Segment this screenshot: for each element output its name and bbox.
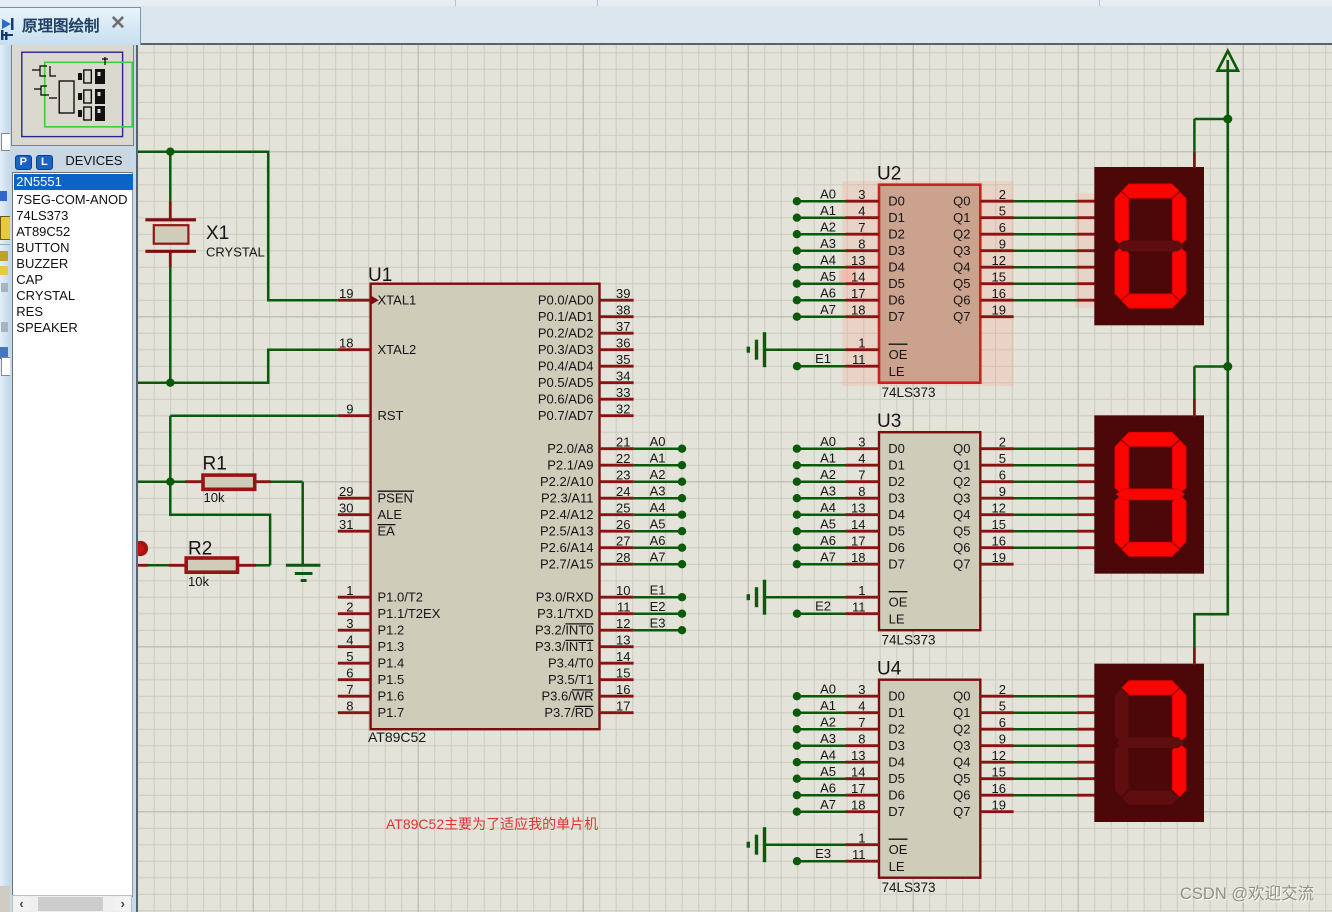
svg-text:P1.7: P1.7 — [378, 705, 405, 720]
svg-text:A1: A1 — [820, 451, 836, 466]
svg-text:P1.2: P1.2 — [378, 622, 405, 637]
svg-text:39: 39 — [616, 286, 630, 301]
svg-text:D6: D6 — [888, 787, 905, 802]
svg-text:16: 16 — [616, 682, 630, 697]
svg-text:10: 10 — [616, 583, 630, 598]
svg-text:A5: A5 — [820, 269, 836, 284]
svg-text:A3: A3 — [820, 731, 836, 746]
svg-text:19: 19 — [992, 303, 1006, 318]
svg-text:9: 9 — [999, 237, 1006, 252]
svg-text:P2.3/A11: P2.3/A11 — [541, 490, 594, 505]
svg-text:32: 32 — [616, 402, 630, 417]
svg-text:A0: A0 — [820, 187, 836, 202]
svg-text:5: 5 — [999, 451, 1006, 466]
svg-text:XTAL1: XTAL1 — [378, 292, 417, 307]
svg-text:P0.4/AD4: P0.4/AD4 — [538, 358, 594, 373]
svg-text:D0: D0 — [888, 688, 905, 703]
svg-text:3: 3 — [858, 682, 865, 697]
svg-text:13: 13 — [851, 253, 865, 268]
svg-text:34: 34 — [616, 369, 630, 384]
svg-text:18: 18 — [851, 303, 865, 318]
svg-text:D2: D2 — [888, 226, 905, 241]
svg-text:P0.3/AD3: P0.3/AD3 — [538, 342, 594, 357]
svg-text:P0.5/AD5: P0.5/AD5 — [538, 375, 594, 390]
svg-text:7: 7 — [858, 220, 865, 235]
svg-text:9: 9 — [999, 732, 1006, 747]
svg-text:17: 17 — [851, 534, 865, 549]
svg-text:3: 3 — [346, 616, 353, 631]
svg-text:Q0: Q0 — [953, 688, 970, 703]
svg-text:12: 12 — [992, 501, 1006, 516]
svg-text:D1: D1 — [888, 705, 905, 720]
svg-text:13: 13 — [616, 633, 630, 648]
svg-text:6: 6 — [346, 666, 353, 681]
svg-text:Q6: Q6 — [953, 292, 970, 307]
svg-text:30: 30 — [339, 501, 353, 516]
svg-text:A6: A6 — [820, 533, 836, 548]
svg-text:D3: D3 — [888, 738, 905, 753]
svg-text:Q1: Q1 — [953, 457, 970, 472]
svg-text:6: 6 — [999, 715, 1006, 730]
svg-text:A0: A0 — [650, 434, 666, 449]
svg-text:P2.2/A10: P2.2/A10 — [540, 474, 594, 489]
svg-text:11: 11 — [617, 600, 631, 615]
svg-text:1: 1 — [858, 336, 865, 351]
svg-text:74LS373: 74LS373 — [882, 880, 936, 895]
svg-text:P2.0/A8: P2.0/A8 — [547, 441, 593, 456]
svg-text:AT89C52主要为了适应我的单片机: AT89C52主要为了适应我的单片机 — [386, 816, 598, 832]
svg-text:P3.0/RXD: P3.0/RXD — [536, 589, 594, 604]
svg-text:A1: A1 — [650, 451, 666, 466]
svg-text:P0.0/AD0: P0.0/AD0 — [538, 292, 594, 307]
svg-text:10k: 10k — [188, 574, 209, 589]
svg-text:A3: A3 — [820, 236, 836, 251]
svg-text:A7: A7 — [820, 550, 836, 565]
svg-text:CSDN @欢迎交流: CSDN @欢迎交流 — [1180, 884, 1314, 903]
svg-text:D6: D6 — [888, 292, 905, 307]
svg-text:36: 36 — [616, 336, 630, 351]
svg-text:RST: RST — [378, 408, 404, 423]
svg-text:2: 2 — [999, 435, 1006, 450]
svg-text:EA: EA — [378, 523, 396, 538]
svg-text:A1: A1 — [820, 698, 836, 713]
svg-text:23: 23 — [616, 468, 630, 483]
svg-text:D4: D4 — [888, 754, 905, 769]
svg-text:A2: A2 — [820, 715, 836, 730]
svg-text:Q5: Q5 — [953, 523, 970, 538]
svg-text:18: 18 — [339, 336, 353, 351]
svg-text:D1: D1 — [888, 210, 905, 225]
svg-text:4: 4 — [858, 451, 865, 466]
svg-text:A7: A7 — [820, 302, 836, 317]
svg-text:P1.0/T2: P1.0/T2 — [378, 589, 424, 604]
svg-text:OE: OE — [889, 347, 908, 362]
svg-text:4: 4 — [858, 699, 865, 714]
svg-text:D5: D5 — [888, 276, 905, 291]
svg-text:7: 7 — [346, 682, 353, 697]
svg-text:P2.6/A14: P2.6/A14 — [540, 540, 594, 555]
svg-text:37: 37 — [616, 319, 630, 334]
svg-text:16: 16 — [992, 286, 1006, 301]
svg-text:D3: D3 — [888, 243, 905, 258]
svg-text:A3: A3 — [820, 484, 836, 499]
svg-text:P3.5/T1: P3.5/T1 — [548, 672, 594, 687]
svg-text:A4: A4 — [820, 500, 836, 515]
svg-text:D5: D5 — [888, 771, 905, 786]
svg-text:Q1: Q1 — [953, 705, 970, 720]
svg-text:1: 1 — [858, 831, 865, 846]
svg-text:D0: D0 — [888, 441, 905, 456]
svg-text:14: 14 — [851, 270, 865, 285]
svg-text:LE: LE — [889, 612, 905, 627]
svg-text:LE: LE — [889, 364, 905, 379]
svg-text:1: 1 — [346, 583, 353, 598]
svg-text:15: 15 — [992, 270, 1006, 285]
svg-text:A6: A6 — [820, 286, 836, 301]
svg-text:P2.1/A9: P2.1/A9 — [547, 457, 593, 472]
svg-text:13: 13 — [851, 748, 865, 763]
svg-text:1: 1 — [858, 583, 865, 598]
svg-text:Q7: Q7 — [953, 309, 970, 324]
svg-text:3: 3 — [858, 435, 865, 450]
svg-text:E3: E3 — [650, 616, 666, 631]
svg-text:Q7: Q7 — [953, 556, 970, 571]
svg-text:Q5: Q5 — [953, 276, 970, 291]
svg-text:12: 12 — [992, 253, 1006, 268]
svg-text:11: 11 — [852, 847, 866, 862]
svg-text:15: 15 — [992, 517, 1006, 532]
svg-text:AT89C52: AT89C52 — [368, 729, 426, 745]
svg-text:17: 17 — [851, 781, 865, 796]
svg-text:Q3: Q3 — [953, 738, 970, 753]
svg-text:A5: A5 — [650, 517, 666, 532]
svg-text:P1.1/T2EX: P1.1/T2EX — [378, 606, 441, 621]
svg-text:P1.6: P1.6 — [378, 688, 405, 703]
svg-text:D6: D6 — [888, 540, 905, 555]
svg-text:29: 29 — [339, 484, 353, 499]
svg-text:5: 5 — [346, 649, 353, 664]
svg-text:P2.4/A12: P2.4/A12 — [540, 507, 594, 522]
svg-text:7: 7 — [858, 468, 865, 483]
svg-text:4: 4 — [346, 633, 353, 648]
svg-text:A6: A6 — [820, 781, 836, 796]
svg-text:5: 5 — [999, 699, 1006, 714]
svg-text:CRYSTAL: CRYSTAL — [206, 245, 265, 260]
svg-text:XTAL2: XTAL2 — [378, 342, 417, 357]
svg-text:Q7: Q7 — [953, 804, 970, 819]
svg-text:8: 8 — [858, 732, 865, 747]
svg-text:U4: U4 — [877, 659, 902, 680]
svg-text:D1: D1 — [888, 457, 905, 472]
svg-text:D4: D4 — [888, 259, 905, 274]
svg-text:OE: OE — [889, 595, 908, 610]
svg-text:A3: A3 — [650, 484, 666, 499]
svg-text:18: 18 — [851, 798, 865, 813]
svg-text:15: 15 — [992, 765, 1006, 780]
svg-text:17: 17 — [851, 286, 865, 301]
svg-text:D7: D7 — [888, 309, 905, 324]
svg-text:9: 9 — [346, 402, 353, 417]
svg-text:74LS373: 74LS373 — [882, 633, 936, 648]
svg-text:2: 2 — [999, 682, 1006, 697]
svg-text:27: 27 — [616, 534, 630, 549]
svg-text:Q2: Q2 — [953, 721, 970, 736]
svg-text:ALE: ALE — [378, 507, 403, 522]
svg-text:5: 5 — [999, 204, 1006, 219]
svg-text:OE: OE — [889, 842, 908, 857]
svg-text:17: 17 — [616, 699, 630, 714]
svg-text:A0: A0 — [820, 434, 836, 449]
svg-text:Q4: Q4 — [953, 754, 970, 769]
svg-text:12: 12 — [616, 616, 630, 631]
svg-text:P3.2/INT0: P3.2/INT0 — [535, 622, 594, 637]
svg-text:3: 3 — [858, 187, 865, 202]
svg-text:A2: A2 — [820, 220, 836, 235]
svg-text:21: 21 — [616, 435, 630, 450]
svg-text:Q5: Q5 — [953, 771, 970, 786]
svg-text:U3: U3 — [877, 411, 901, 432]
svg-text:D7: D7 — [888, 556, 905, 571]
svg-text:A4: A4 — [820, 748, 836, 763]
svg-text:P1.5: P1.5 — [378, 672, 405, 687]
svg-text:Q3: Q3 — [953, 490, 970, 505]
svg-text:P3.6/WR: P3.6/WR — [541, 688, 593, 703]
svg-text:9: 9 — [999, 484, 1006, 499]
svg-text:8: 8 — [858, 484, 865, 499]
svg-text:P0.6/AD6: P0.6/AD6 — [538, 391, 594, 406]
svg-text:18: 18 — [851, 550, 865, 565]
svg-text:16: 16 — [992, 534, 1006, 549]
svg-text:A7: A7 — [650, 550, 666, 565]
svg-text:X1: X1 — [206, 223, 229, 244]
svg-text:16: 16 — [992, 781, 1006, 796]
svg-text:15: 15 — [616, 666, 630, 681]
svg-text:19: 19 — [992, 798, 1006, 813]
svg-text:Q2: Q2 — [953, 474, 970, 489]
svg-text:A1: A1 — [820, 203, 836, 218]
svg-text:P3.1/TXD: P3.1/TXD — [537, 606, 593, 621]
svg-text:Q4: Q4 — [953, 259, 970, 274]
svg-text:D3: D3 — [888, 490, 905, 505]
svg-text:74LS373: 74LS373 — [882, 385, 936, 400]
svg-text:Q0: Q0 — [953, 441, 970, 456]
svg-text:Q0: Q0 — [953, 193, 970, 208]
svg-text:P3.3/INT1: P3.3/INT1 — [535, 639, 594, 654]
svg-text:P0.7/AD7: P0.7/AD7 — [538, 408, 594, 423]
svg-text:Q6: Q6 — [953, 540, 970, 555]
svg-text:22: 22 — [616, 451, 630, 466]
svg-text:11: 11 — [852, 352, 866, 367]
svg-text:PSEN: PSEN — [378, 490, 413, 505]
svg-text:U2: U2 — [877, 164, 901, 185]
svg-text:2: 2 — [999, 187, 1006, 202]
svg-text:P3.7/RD: P3.7/RD — [544, 705, 593, 720]
svg-text:A7: A7 — [820, 797, 836, 812]
svg-text:Q6: Q6 — [953, 787, 970, 802]
svg-text:31: 31 — [339, 517, 353, 532]
svg-text:A4: A4 — [820, 253, 836, 268]
svg-text:A0: A0 — [820, 682, 836, 697]
svg-text:33: 33 — [616, 385, 630, 400]
svg-text:P0.1/AD1: P0.1/AD1 — [538, 309, 594, 324]
svg-text:D7: D7 — [888, 804, 905, 819]
svg-text:D4: D4 — [888, 507, 905, 522]
svg-text:R2: R2 — [188, 539, 212, 560]
svg-text:Q3: Q3 — [953, 243, 970, 258]
svg-text:A4: A4 — [650, 500, 666, 515]
svg-text:D2: D2 — [888, 721, 905, 736]
svg-text:8: 8 — [346, 699, 353, 714]
svg-text:26: 26 — [616, 517, 630, 532]
svg-text:7: 7 — [858, 715, 865, 730]
svg-text:E3: E3 — [815, 846, 831, 861]
svg-text:4: 4 — [858, 204, 865, 219]
svg-text:E2: E2 — [650, 599, 666, 614]
svg-text:A2: A2 — [650, 467, 666, 482]
svg-text:11: 11 — [852, 600, 866, 615]
svg-text:P2.7/A15: P2.7/A15 — [540, 556, 594, 571]
svg-text:6: 6 — [999, 220, 1006, 235]
svg-text:2: 2 — [346, 600, 353, 615]
svg-text:E2: E2 — [815, 599, 831, 614]
svg-text:10k: 10k — [204, 490, 225, 505]
svg-text:19: 19 — [992, 550, 1006, 565]
svg-text:Q1: Q1 — [953, 210, 970, 225]
svg-text:8: 8 — [858, 237, 865, 252]
svg-text:A5: A5 — [820, 517, 836, 532]
svg-text:13: 13 — [851, 501, 865, 516]
svg-text:D2: D2 — [888, 474, 905, 489]
svg-text:24: 24 — [616, 484, 630, 499]
svg-text:U1: U1 — [368, 265, 392, 286]
svg-text:A6: A6 — [650, 533, 666, 548]
svg-text:R1: R1 — [203, 454, 227, 475]
svg-text:P1.3: P1.3 — [378, 639, 405, 654]
svg-text:Q2: Q2 — [953, 226, 970, 241]
svg-text:14: 14 — [851, 517, 865, 532]
svg-text:A5: A5 — [820, 764, 836, 779]
svg-text:6: 6 — [999, 468, 1006, 483]
svg-text:35: 35 — [616, 352, 630, 367]
svg-text:E1: E1 — [650, 583, 666, 598]
svg-text:E1: E1 — [815, 351, 831, 366]
svg-text:D5: D5 — [888, 523, 905, 538]
svg-text:19: 19 — [339, 286, 353, 301]
svg-text:LE: LE — [889, 859, 905, 874]
svg-text:P0.2/AD2: P0.2/AD2 — [538, 325, 594, 340]
svg-text:38: 38 — [616, 303, 630, 318]
svg-text:14: 14 — [616, 649, 630, 664]
svg-text:12: 12 — [992, 748, 1006, 763]
svg-text:P3.4/T0: P3.4/T0 — [548, 655, 594, 670]
svg-text:D0: D0 — [888, 193, 905, 208]
svg-text:14: 14 — [851, 765, 865, 780]
svg-text:P1.4: P1.4 — [378, 655, 405, 670]
svg-text:25: 25 — [616, 501, 630, 516]
svg-text:28: 28 — [616, 550, 630, 565]
svg-text:Q4: Q4 — [953, 507, 970, 522]
svg-text:A2: A2 — [820, 467, 836, 482]
svg-text:P2.5/A13: P2.5/A13 — [540, 523, 594, 538]
